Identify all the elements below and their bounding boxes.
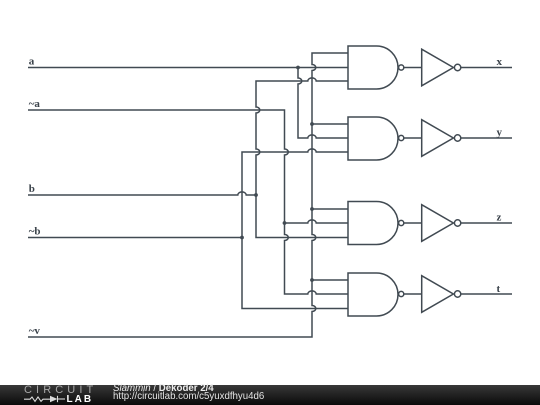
svg-text:~b: ~b [29,226,41,238]
svg-text:~a: ~a [29,98,41,110]
svg-text:x: x [497,56,503,68]
svg-text:~v: ~v [29,325,41,337]
svg-text:t: t [497,283,501,295]
svg-text:a: a [29,55,35,67]
svg-text:z: z [497,212,502,224]
svg-text:y: y [497,126,503,138]
svg-text:b: b [29,183,35,195]
